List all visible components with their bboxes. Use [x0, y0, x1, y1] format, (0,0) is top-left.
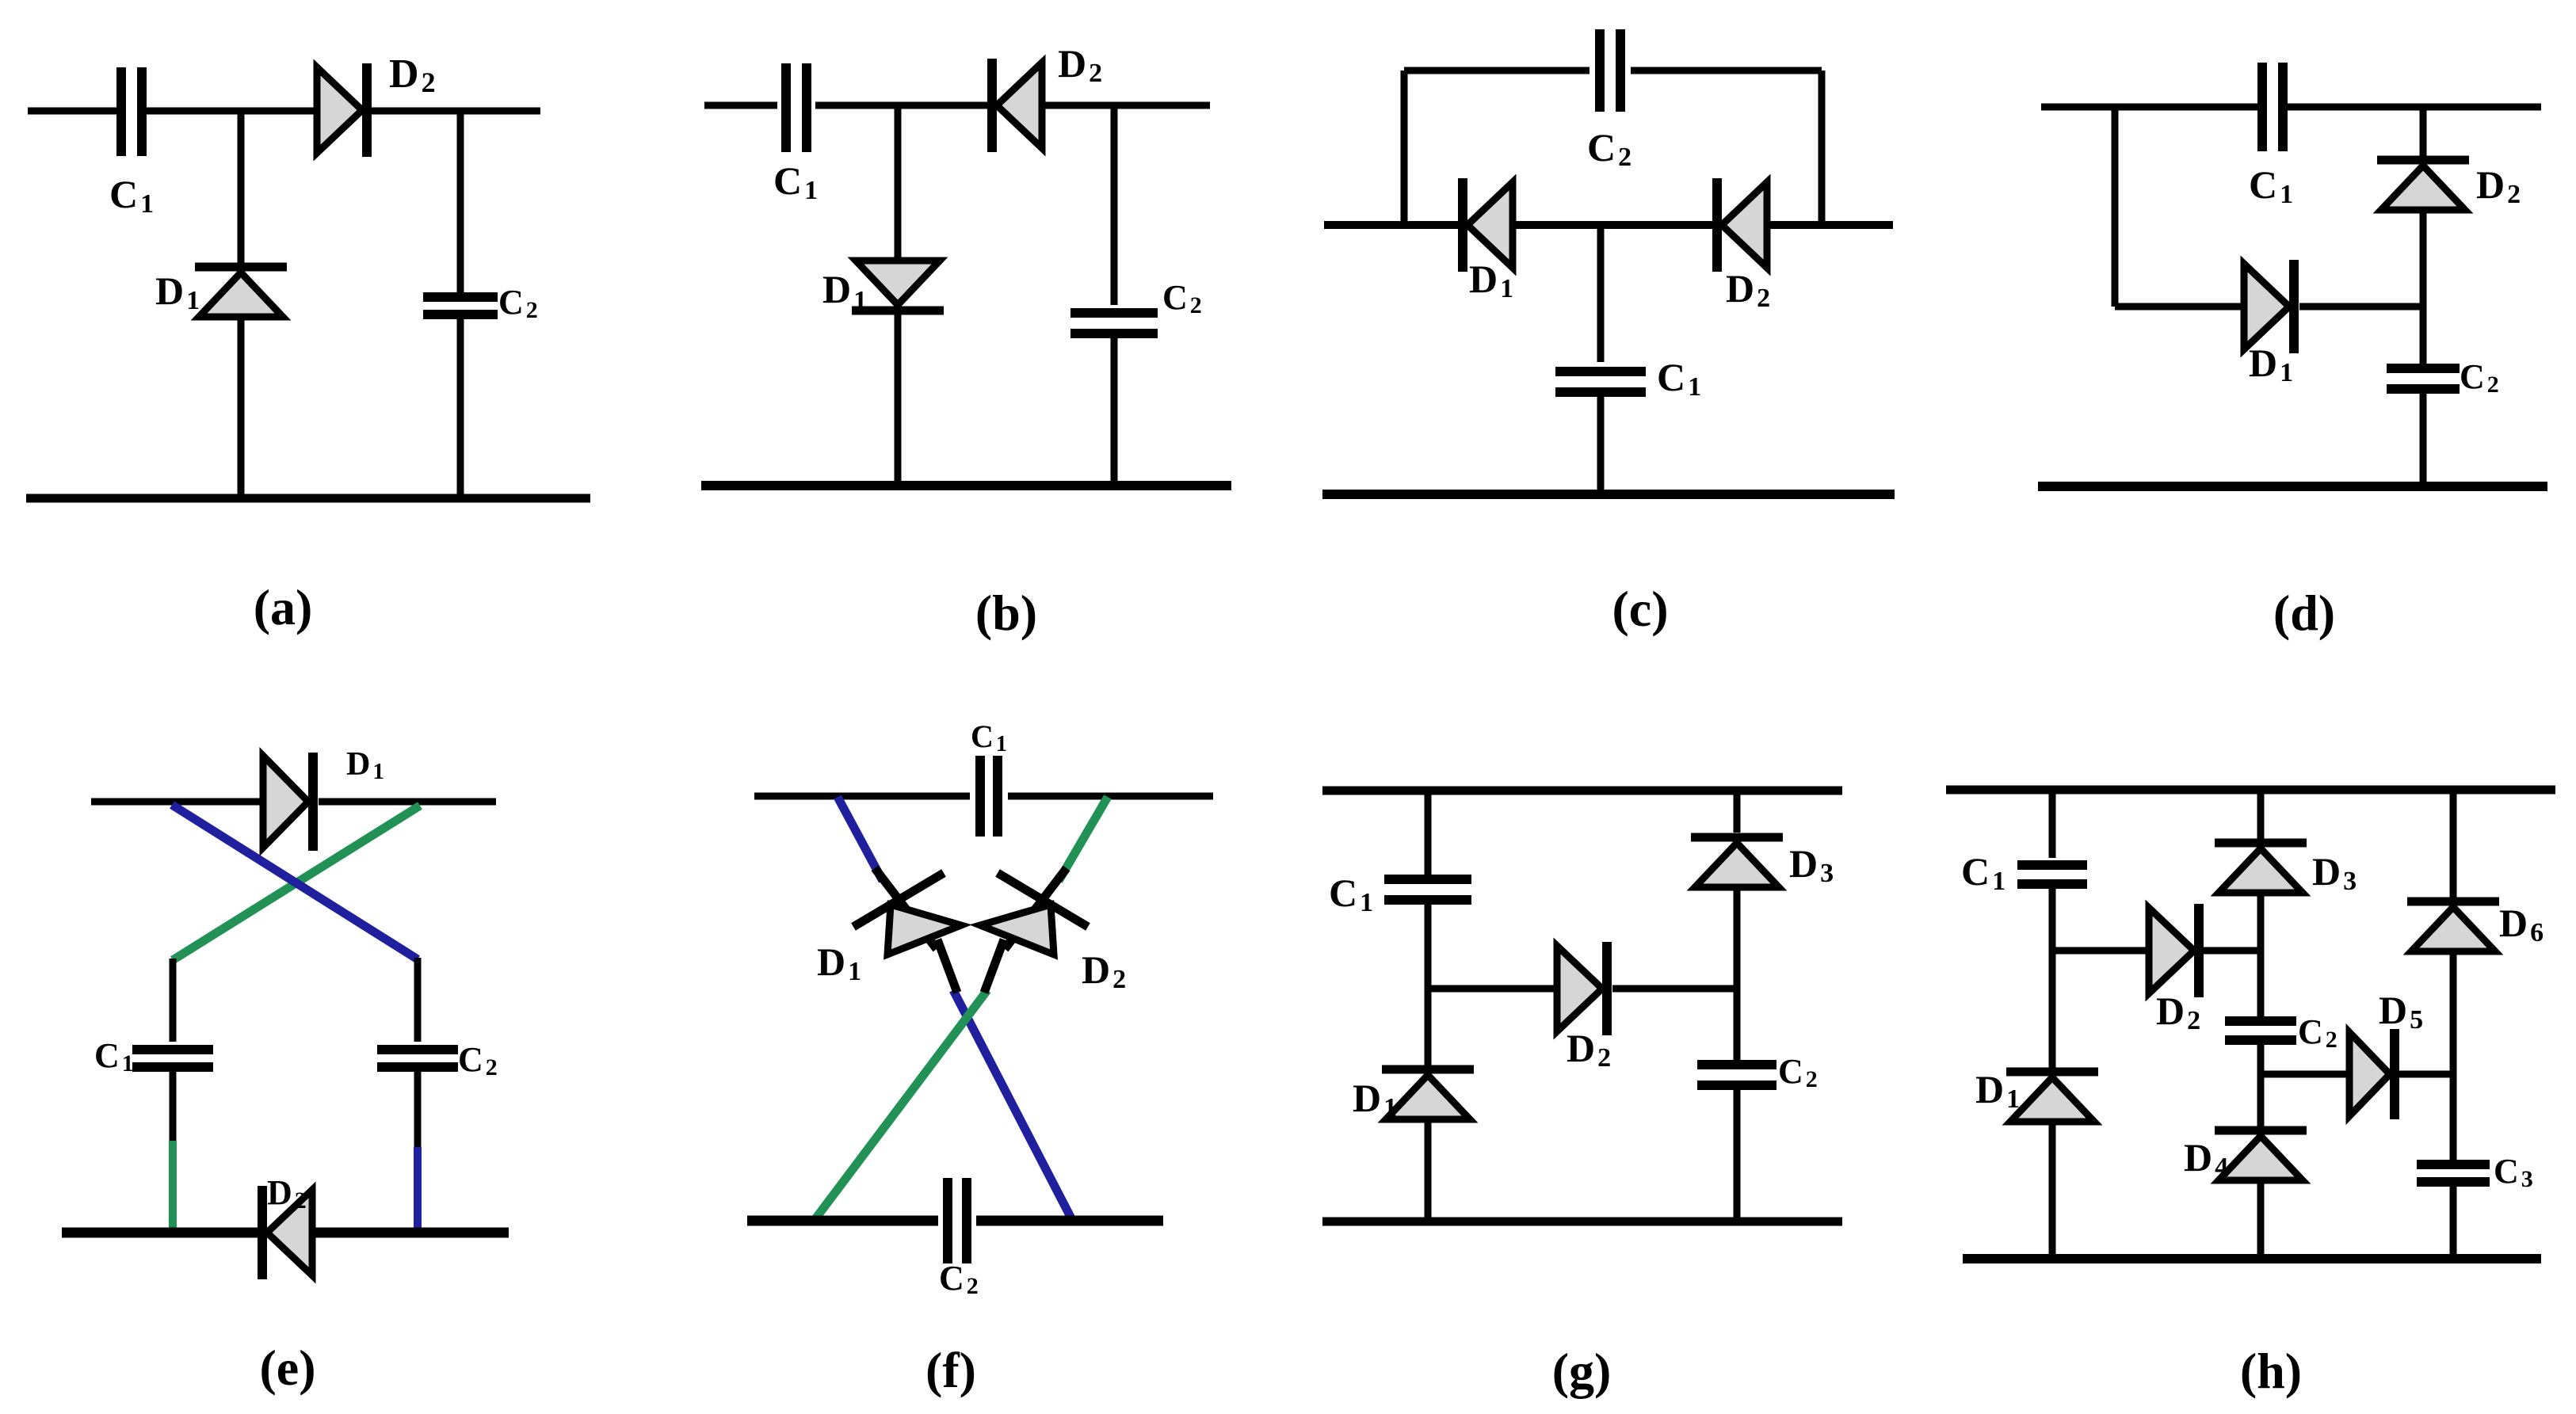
- capacitor C1 (e): [132, 1050, 213, 1067]
- wire f: green lower segment: [815, 990, 987, 1220]
- wire f: blue upper segment: [838, 797, 883, 881]
- wire e: left branch lower black: [170, 1069, 177, 1141]
- wire d: bottom rail: [2038, 482, 2547, 491]
- wire a: output node to C2: [457, 111, 464, 294]
- wire a: D2 output: [372, 108, 540, 115]
- wire h: D4 to bottom rail: [2257, 1180, 2265, 1259]
- wire a: node to D1: [238, 111, 245, 266]
- wire e: left branch green segment: [169, 1141, 177, 1229]
- wire c: bridge right drop: [1818, 71, 1826, 225]
- wire c: between D1 and D2: [1513, 221, 1714, 229]
- capacitor C2 (h): [2225, 1021, 2296, 1040]
- diode D1 (d): [2244, 260, 2294, 353]
- wire c: bottom rail: [1322, 490, 1895, 499]
- svg-text:(d): (d): [2273, 585, 2335, 641]
- capacitor C2 (a): [423, 297, 498, 314]
- wire a: D1 anode to bottom rail: [238, 317, 245, 498]
- capacitor C1 (c): [1555, 372, 1646, 392]
- diode D1 (c): [1463, 178, 1513, 272]
- wire a: bottom rail: [26, 494, 590, 503]
- wire h: D5 out to right branch: [2399, 1071, 2453, 1078]
- wire h: D6 to C3: [2450, 951, 2457, 1161]
- wire c: bridge left drop: [1401, 71, 1408, 225]
- diode D2 (f) rotated: [980, 868, 1088, 993]
- diode D2 (d): [2377, 160, 2469, 210]
- wire a: C1 to D2: [142, 108, 317, 115]
- wire c: bridge left to C2: [1404, 67, 1589, 74]
- wire c: middle rail right: [1767, 221, 1893, 229]
- wire b: D1 to bottom rail: [895, 314, 902, 486]
- wire d: top to D2 bar: [2420, 107, 2427, 159]
- wire f: blue lower segment: [953, 990, 1071, 1218]
- wire e: bottom rail left: [62, 1228, 259, 1238]
- wire g: C1 to D1: [1425, 900, 1432, 1068]
- wire e: green cross link: [173, 806, 420, 960]
- capacitor C2 (d): [2387, 368, 2460, 389]
- svg-text:(h): (h): [2240, 1343, 2302, 1399]
- diode D1 (e): [263, 753, 313, 851]
- wire d: left drop to D1: [2115, 303, 2244, 311]
- wire d: top rail left: [2041, 104, 2263, 111]
- wire c: C1 to bottom rail: [1597, 393, 1605, 494]
- svg-text:(f): (f): [925, 1342, 976, 1398]
- capacitor C1 (d): [2262, 63, 2283, 151]
- diode D6 (h): [2407, 901, 2499, 951]
- wire f: top rail right: [1008, 793, 1213, 800]
- wire g: D1 to bottom rail: [1425, 1119, 1432, 1222]
- capacitor C2 (f): [948, 1178, 967, 1263]
- wire b: C2 to bottom rail: [1111, 333, 1118, 486]
- diode D5 (h): [2349, 1029, 2395, 1119]
- diode D1 (b): [852, 261, 944, 311]
- wire a: top-left input: [28, 108, 121, 115]
- wire f: bottom rail left: [747, 1216, 938, 1226]
- wire e: blue cross link: [172, 805, 418, 959]
- wire g: C2 to bottom rail: [1734, 1085, 1741, 1222]
- wire b: node down to D1: [895, 105, 902, 259]
- wire c: C2 to bridge right: [1631, 67, 1822, 74]
- wire g: right branch top: [1734, 791, 1741, 833]
- wire d: D1 output to node: [2299, 303, 2423, 311]
- wire h: D2 out to middle branch: [2204, 947, 2261, 955]
- diode D2 (g): [1557, 942, 1607, 1035]
- wire b: D2 anode to output: [1042, 102, 1210, 109]
- wire a: C2 to bottom rail: [457, 318, 464, 498]
- wire b: C1 to D2 cathode bar: [815, 102, 987, 109]
- wire h: top rail: [1946, 786, 2555, 795]
- diode D4 (h): [2215, 1130, 2307, 1180]
- capacitor C1 (b): [786, 63, 807, 152]
- wire h: C2 to D4: [2257, 1040, 2265, 1128]
- wire e: right branch upper: [414, 958, 422, 1042]
- wire h: middle branch top: [2257, 790, 2265, 840]
- wire g: D3 to C2: [1734, 887, 1741, 1061]
- capacitor C1 (f): [980, 756, 998, 837]
- wire h: right branch top: [2450, 790, 2457, 901]
- capacitor C3 (h): [2417, 1164, 2490, 1182]
- capacitor C2 (e): [377, 1050, 458, 1067]
- wire e: bottom rail right: [312, 1228, 509, 1238]
- wire h: bottom rail: [1963, 1254, 2541, 1263]
- diode D2 (h): [2149, 904, 2199, 997]
- wire g: top rail: [1322, 787, 1842, 795]
- diode D1 (a): [195, 267, 287, 317]
- svg-text:(c): (c): [1612, 581, 1668, 637]
- wire b: bottom rail: [701, 481, 1231, 490]
- wire g: middle wire left: [1428, 985, 1557, 993]
- wire g: middle wire right: [1612, 985, 1737, 993]
- wire d: C2 to bottom rail: [2420, 389, 2427, 486]
- wire h: wire to D5: [2261, 1071, 2349, 1078]
- wire h: left branch to C1: [2049, 790, 2056, 858]
- capacitor C2 (b): [1070, 313, 1158, 333]
- wire c: center node to C1: [1597, 225, 1605, 362]
- wire d: left drop: [2112, 107, 2119, 307]
- diode D3 (h): [2215, 843, 2307, 893]
- wire c: middle rail left: [1324, 221, 1458, 229]
- wire h: C1 to D1: [2049, 884, 2056, 1069]
- wire f: top rail left: [754, 793, 970, 800]
- wire b: output node to C2: [1111, 105, 1118, 305]
- diode D2 (c): [1717, 178, 1767, 272]
- diode D2 (b): [992, 59, 1042, 152]
- capacitor C2 (c): [1600, 29, 1620, 112]
- wire h: D1 to bottom rail: [2049, 1122, 2056, 1259]
- wire h: wire to D2: [2052, 947, 2149, 955]
- svg-text:(b): (b): [975, 585, 1037, 641]
- svg-text:(a): (a): [254, 579, 313, 635]
- wire e: right branch lower black: [414, 1069, 422, 1147]
- wire g: left branch to C1: [1425, 791, 1432, 875]
- svg-text:(e): (e): [259, 1340, 315, 1396]
- capacitor C1 (g): [1384, 879, 1471, 900]
- wire f: green upper segment: [1059, 797, 1108, 881]
- capacitor C1 (h): [2017, 865, 2087, 884]
- wire f: bottom rail right: [976, 1216, 1163, 1226]
- diode D1 (g): [1382, 1069, 1474, 1119]
- capacitor C2 (g): [1697, 1065, 1776, 1085]
- diode D1 (h): [2006, 1072, 2098, 1122]
- diode D2 (a): [317, 63, 367, 157]
- diode D2 (e): [262, 1186, 312, 1279]
- wire d: top rail right: [2282, 104, 2541, 111]
- wire e: left branch upper: [170, 959, 177, 1042]
- wire h: C3 to bottom rail: [2450, 1182, 2457, 1259]
- diode D3 (g): [1691, 837, 1783, 887]
- capacitor C1 (a): [121, 67, 142, 156]
- wire e: right branch blue segment: [414, 1147, 422, 1229]
- svg-text:(g): (g): [1552, 1343, 1612, 1399]
- wire d: D2 to C2: [2420, 210, 2427, 364]
- wire g: bottom rail: [1322, 1218, 1842, 1226]
- wire h: D3 to C2: [2257, 893, 2265, 1018]
- wire e: top rail right: [319, 798, 496, 806]
- diode D1 (f) rotated: [853, 868, 961, 993]
- wire b: top-left input: [704, 102, 777, 109]
- wire e: top rail left: [91, 798, 263, 806]
